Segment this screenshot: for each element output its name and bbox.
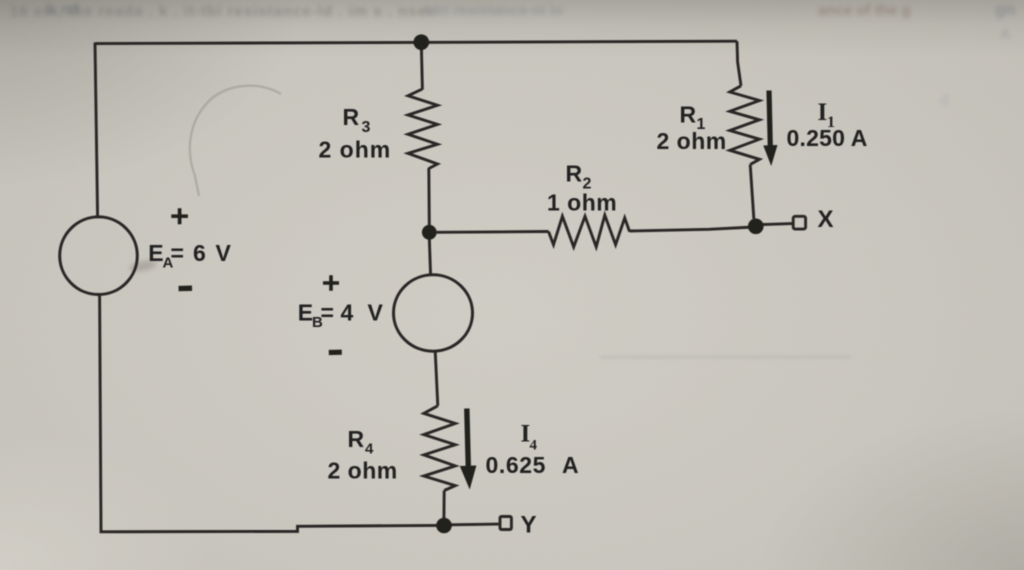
svg-text:Y: Y [521, 512, 537, 539]
junction dot: middle node (R3/R2/EB) [422, 225, 437, 240]
wire: left branch lower lead from EA [100, 294, 101, 532]
svg-text:6: 6 [193, 240, 206, 266]
wire: R2 left lead [436, 230, 549, 234]
polarity + of EA [171, 208, 188, 224]
svg-text:X: X [818, 206, 834, 233]
wire: R4 bottom lead to bottom node [442, 491, 445, 520]
svg-text:R: R [566, 160, 583, 186]
svg-text:1 ohm: 1 ohm [547, 190, 617, 216]
junction dot: bottom node (R4/bottom bus) [436, 518, 452, 534]
terminal X (open square) [793, 216, 805, 229]
svg-text:2 ohm: 2 ohm [657, 128, 727, 154]
svg-text:E: E [148, 240, 163, 266]
wire: EB bottom lead [435, 351, 438, 406]
svg-text:2 ohm: 2 ohm [319, 136, 392, 162]
svg-text:E: E [298, 300, 313, 326]
polarity + of EB [323, 275, 339, 291]
resistor R4 (zigzag) [424, 406, 456, 491]
svg-text:4: 4 [341, 300, 354, 326]
svg-text:R: R [348, 426, 365, 452]
faint bleed line, right middle [600, 356, 850, 358]
svg-text:4: 4 [365, 441, 374, 458]
wire: left branch upper lead to EA [95, 43, 98, 218]
resistor R3 (zigzag) [408, 89, 438, 169]
wire: EB top lead from middle node [429, 238, 430, 276]
voltage source EB (circle) [394, 275, 473, 351]
svg-text:2 ohm: 2 ohm [328, 458, 398, 484]
wire: bottom bus (left section with jog) [100, 525, 438, 531]
svg-text:A: A [562, 452, 579, 478]
svg-text:R: R [343, 104, 360, 130]
resistor R1 (zigzag) [730, 86, 760, 165]
voltage source EA (circle) [60, 217, 138, 295]
current arrow I1 (stem) [769, 91, 770, 148]
faint smudge left of EA label [128, 258, 157, 274]
svg-text:V: V [216, 240, 232, 266]
current arrow I4 (stem) [467, 409, 469, 468]
polarity - of EB [329, 350, 342, 355]
svg-text:0.250 A: 0.250 A [787, 125, 868, 151]
resistor R2 (zigzag) [549, 215, 630, 247]
svg-text:V: V [368, 300, 384, 326]
svg-text:R: R [680, 101, 697, 127]
wire: R1 top lead from top bus corner [737, 41, 741, 86]
wire: R3 bottom lead to middle node [427, 168, 430, 226]
wire: R3 top lead from top bus [421, 43, 422, 90]
wire: X node to terminal X [762, 224, 792, 225]
polarity - of EA [179, 286, 192, 292]
svg-text:=: = [321, 300, 334, 326]
svg-text:0.625: 0.625 [486, 452, 547, 478]
current arrow I1 (head) [763, 145, 777, 166]
terminal Y (open square) [500, 517, 511, 530]
svg-text:I: I [818, 99, 828, 126]
paper crease mark left of R3 [190, 86, 281, 196]
wire: R2 right lead to X node [630, 227, 754, 231]
junction dot: top bus / R3 [414, 34, 430, 50]
current arrow I4 (head) [460, 466, 477, 490]
bleed-through text from reverse side, top edge [10, 3, 436, 20]
wire: bottom bus node to terminal Y [450, 523, 499, 527]
wire: R1 bottom lead to X node [750, 165, 754, 220]
svg-text:=: = [171, 240, 184, 266]
wire: top bus [95, 41, 737, 43]
svg-text:3: 3 [362, 119, 371, 136]
junction dot: right node (R1/R2/X) [748, 219, 764, 235]
